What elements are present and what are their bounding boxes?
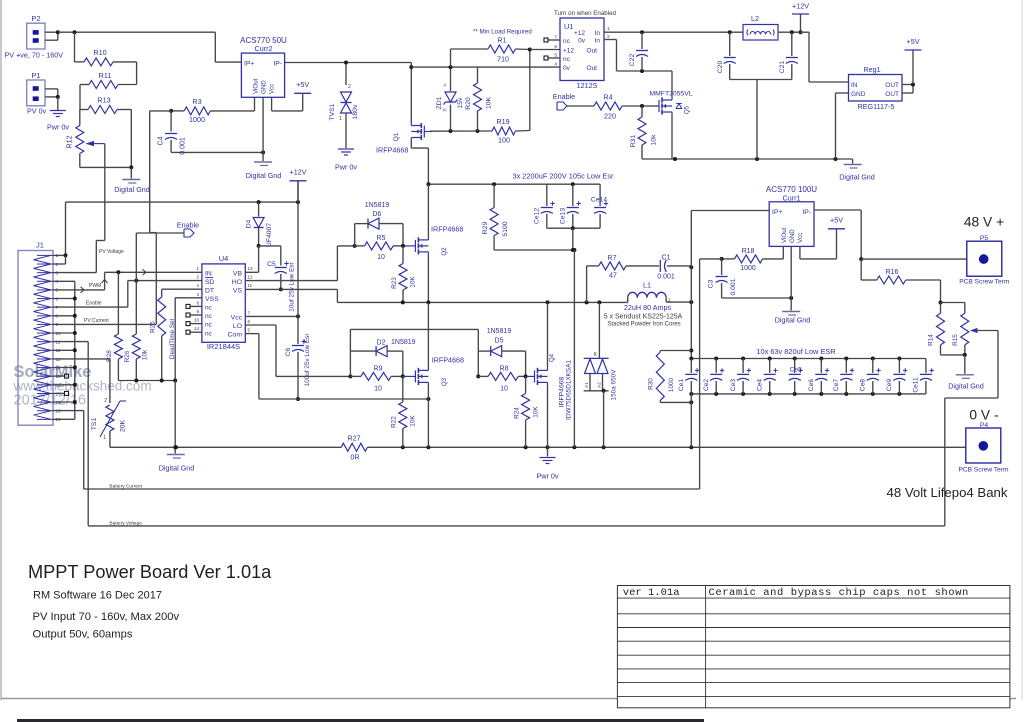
wire U1 pin6 (530, 49, 560, 51)
svg-text:Ce14: Ce14 (591, 197, 607, 204)
capacitor Ce7 (833, 359, 854, 394)
nc pin5 U1 (544, 56, 560, 60)
ground Pwr 0v TVS1 (335, 149, 357, 172)
svg-text:20K: 20K (120, 419, 127, 432)
svg-text:IN: IN (851, 82, 858, 89)
svg-text:VSS: VSS (205, 296, 219, 303)
svg-text:Battery Voltage: Battery Voltage (109, 521, 142, 527)
wire P1 pins (45, 89, 60, 99)
wire P2 junction to R10 (74, 32, 76, 62)
svg-text:Ce9: Ce9 (886, 379, 893, 391)
svg-text:10K: 10K (410, 276, 417, 288)
svg-text:GND: GND (851, 91, 866, 98)
svg-text:10K: 10K (410, 415, 417, 427)
svg-text:IP-: IP- (802, 209, 811, 216)
svg-text:Enable: Enable (86, 301, 102, 307)
resistor R18 (720, 248, 763, 272)
transistor Q1 (376, 123, 432, 155)
svg-text:C6: C6 (285, 347, 292, 356)
wire 0V rail right (401, 445, 966, 449)
capacitor Ce3 (730, 359, 751, 394)
svg-text:+5V: +5V (296, 80, 309, 89)
wire U1 pin1 +12 rail (604, 30, 743, 34)
diode D4 (246, 202, 274, 247)
wire SD row (56, 279, 202, 308)
capacitor Ce14 (591, 184, 608, 228)
thermistor TS1 (91, 398, 127, 447)
label PV 0v (27, 107, 47, 116)
svg-text:GND: GND (261, 80, 268, 94)
capacitor Ce5 (789, 359, 803, 394)
svg-text:IDW75D65D1XKSA1: IDW75D65D1XKSA1 (566, 360, 573, 420)
label 0V- (969, 408, 998, 423)
svg-text:R31: R31 (630, 135, 637, 148)
wire Curr1 ViOut (763, 246, 784, 259)
svg-text:nc: nc (205, 330, 213, 337)
svg-text:IRFP4668: IRFP4668 (376, 146, 408, 155)
svg-text:10: 10 (194, 318, 200, 323)
svg-text:0v: 0v (563, 65, 571, 72)
nc pins U4 (186, 304, 202, 334)
svg-text:R27: R27 (347, 434, 360, 443)
svg-text:10: 10 (374, 386, 382, 393)
wire Com row (245, 334, 430, 401)
wire DT row (162, 288, 202, 290)
svg-text:HO: HO (232, 279, 242, 286)
svg-text:2: 2 (104, 398, 107, 404)
power +5V Curr2 (294, 80, 311, 93)
capacitor Ce1 (678, 359, 699, 394)
label Battery Voltage (109, 521, 142, 527)
svg-text:A1: A1 (584, 382, 590, 388)
wire P2 to IP+ (58, 30, 242, 62)
svg-text:Digital Gnd: Digital Gnd (775, 316, 811, 325)
svg-text:R7: R7 (608, 255, 617, 262)
watermark SolarMike (13, 363, 152, 409)
svg-text:L2: L2 (751, 14, 759, 23)
wire R1-R19 junction (528, 48, 532, 131)
subtitle PV Input (33, 611, 180, 623)
capacitor C22 (629, 32, 648, 71)
label PWM (89, 283, 101, 289)
svg-text:10: 10 (500, 386, 508, 393)
svg-text:R30: R30 (648, 378, 655, 390)
svg-text:Digital Gnd: Digital Gnd (839, 173, 875, 182)
resistor R24 (514, 376, 540, 447)
transistor Q2 (403, 225, 463, 256)
capacitor Ce2 (703, 359, 724, 394)
svg-text:220: 220 (604, 112, 616, 121)
svg-text:D5: D5 (495, 338, 504, 345)
svg-text:Ce6: Ce6 (808, 379, 815, 391)
wire VSS row (175, 298, 202, 381)
capacitor C1 (626, 255, 693, 281)
wire J1 pin11 battery voltage (53, 342, 88, 526)
svg-text:IP+: IP+ (244, 61, 254, 68)
svg-text:Output 50v, 60amps: Output 50v, 60amps (33, 629, 133, 641)
wire rail jog (409, 63, 560, 123)
resistor R14 (928, 303, 945, 355)
wire PV+ rail (426, 182, 600, 186)
wire VS row (245, 289, 337, 302)
capacitor Ce9 (886, 359, 907, 394)
capacitor C6 (285, 333, 311, 401)
svg-text:Out: Out (587, 48, 598, 55)
svg-text:Vcc: Vcc (269, 84, 276, 94)
svg-text:10k: 10k (142, 349, 149, 360)
svg-text:1: 1 (103, 435, 106, 441)
svg-text:IRFP4668: IRFP4668 (559, 376, 566, 407)
wire Q2 source (427, 255, 429, 303)
svg-text:+12: +12 (563, 48, 574, 55)
diode D5 (478, 328, 525, 376)
svg-text:48 Volt Lifepo4 Bank: 48 Volt Lifepo4 Bank (887, 485, 1008, 500)
connector P2 (27, 14, 45, 49)
svg-text:PV Voltage: PV Voltage (99, 249, 124, 255)
connector J1 (18, 241, 61, 426)
svg-text:nc: nc (563, 56, 571, 63)
resistor R30 (648, 351, 694, 405)
svg-text:3x 2200uF 200V 105c Low Esr: 3x 2200uF 200V 105c Low Esr (512, 172, 614, 181)
svg-text:nc: nc (563, 38, 571, 45)
wire J1 pin5 (53, 289, 56, 291)
ground Digital Gnd divider (114, 167, 150, 194)
svg-text:+12: +12 (574, 30, 585, 37)
svg-text:R9: R9 (374, 366, 383, 373)
connector P1 (27, 71, 45, 106)
svg-text:Ceramic and bypass chip caps n: Ceramic and bypass chip caps not shown (709, 587, 969, 599)
resistor R20 (465, 67, 493, 131)
wire R10-R11 (136, 62, 138, 85)
svg-text:R26: R26 (124, 350, 131, 362)
label bulk caps (512, 172, 614, 181)
resistor R25 (150, 289, 177, 380)
wire HO link (337, 244, 356, 248)
title MPPT (28, 562, 272, 582)
svg-text:L1: L1 (643, 281, 651, 290)
svg-text:TS1: TS1 (91, 418, 98, 431)
wire battery current link (700, 259, 722, 489)
svg-text:+5V: +5V (830, 216, 843, 225)
wire J1 pin7 (53, 306, 56, 308)
wire Curr1 IP- to P5 (814, 210, 967, 261)
wire Q1 to Q2 drain (427, 184, 429, 237)
svg-text:IP+: IP+ (772, 209, 782, 216)
bottom screen edge bar (17, 719, 704, 722)
power +5V Reg1 (905, 37, 922, 50)
svg-text:U1: U1 (564, 22, 574, 31)
wire L2 right to Reg1 (778, 30, 849, 82)
svg-text:48 V +: 48 V + (964, 215, 1004, 230)
svg-text:0.001: 0.001 (657, 274, 675, 281)
svg-text:nc: nc (205, 305, 213, 312)
zener ZD1 (436, 65, 464, 131)
svg-text:R11: R11 (99, 71, 112, 80)
svg-text:PCB Screw Term: PCB Screw Term (958, 467, 1009, 474)
wire D4 to VB (245, 244, 260, 272)
ground Digital Gnd Curr2 (246, 162, 282, 180)
subtitle Output (33, 629, 133, 641)
potentiometer R15 (941, 303, 978, 357)
wire J1 pin1 pin2 +12 (53, 253, 68, 264)
svg-text:C22: C22 (629, 54, 636, 67)
capacitor C20 (717, 32, 736, 79)
resistor R31 (630, 106, 658, 159)
page left border (0, 0, 2, 700)
svg-text:Enable: Enable (553, 92, 575, 101)
ground Pwr 0v P1 (47, 97, 69, 132)
svg-text:Ce3: Ce3 (730, 379, 737, 391)
svg-text:IN: IN (205, 270, 212, 277)
resistor R9 (350, 366, 404, 393)
svg-text:Ce5: Ce5 (790, 367, 802, 374)
svg-text:IP-: IP- (273, 61, 282, 68)
svg-text:IR21844S: IR21844S (207, 342, 240, 351)
wire pulldown rail (118, 379, 177, 383)
wire R11-R13 (79, 85, 81, 110)
wire Curr1 Vcc (800, 229, 837, 259)
label PV +ve (5, 51, 64, 60)
svg-text:R14: R14 (928, 334, 935, 346)
ic Reg1 REG1117-5 (849, 65, 903, 111)
svg-text:1212S: 1212S (577, 81, 598, 90)
svg-text:1N5819: 1N5819 (391, 339, 416, 346)
wire Curr2 GND (262, 97, 264, 161)
svg-text:MMFT3055VL: MMFT3055VL (649, 91, 692, 98)
wire C4 to gnd (171, 150, 265, 154)
nc pin7 U1 (544, 38, 560, 42)
svg-text:14: 14 (194, 326, 200, 331)
wire bank to 0V (690, 394, 692, 447)
svg-text:22uH 80 Amps: 22uH 80 Amps (624, 303, 672, 312)
svg-text:PCB Screw Term: PCB Screw Term (959, 279, 1010, 286)
svg-text:nc: nc (205, 322, 213, 329)
svg-text:Q3: Q3 (441, 377, 448, 386)
ic Curr2 ACS770 50U (240, 36, 287, 97)
svg-text:Turn on when Enabled: Turn on when Enabled (554, 10, 617, 17)
page right border (1021, 0, 1023, 700)
svg-text:R5: R5 (377, 235, 386, 242)
svg-text:PV 0v: PV 0v (27, 107, 47, 116)
transistor Q5 (649, 71, 692, 159)
ic U4 IR21844S (194, 254, 253, 351)
wire +12 vertical (297, 181, 299, 344)
svg-text:Pwr 0v: Pwr 0v (335, 163, 357, 172)
svg-text:+12V: +12V (792, 2, 809, 11)
svg-text:R22: R22 (391, 416, 398, 428)
svg-text:ViOut: ViOut (253, 78, 260, 94)
svg-text:P2: P2 (31, 14, 40, 23)
svg-text:Battery Current: Battery Current (109, 484, 142, 490)
svg-text:R24: R24 (514, 407, 521, 419)
svg-text:UF4007: UF4007 (266, 223, 273, 247)
svg-text:PV +ve, 70 - 160V: PV +ve, 70 - 160V (5, 51, 64, 60)
nc J1 pin17 (53, 391, 69, 395)
wire R12 bottom rail (80, 165, 134, 169)
power +12V L2 (792, 2, 809, 35)
resistor R27 (341, 434, 403, 462)
svg-text:Ce2: Ce2 (703, 379, 710, 391)
resistor R5 (355, 235, 405, 261)
power +5V Curr1 (828, 216, 845, 229)
svg-text:0R: 0R (350, 453, 359, 462)
svg-text:1N5819: 1N5819 (365, 202, 390, 209)
svg-text:TVS1: TVS1 (329, 103, 336, 120)
svg-text:** Min Load Required: ** Min Load Required (473, 29, 532, 36)
resistor R13 (80, 96, 131, 114)
svg-text:R1: R1 (497, 36, 506, 45)
svg-text:1000: 1000 (740, 265, 756, 272)
svg-text:ZD1: ZD1 (436, 96, 443, 109)
table revision (617, 586, 1010, 708)
wire J1 pin19 battery current (53, 411, 700, 489)
svg-text:SD: SD (205, 279, 215, 286)
svg-text:100uf 25v Low Esr: 100uf 25v Low Esr (304, 333, 311, 387)
svg-text:U4: U4 (219, 254, 229, 263)
wire battery+ node (689, 211, 769, 359)
svg-text:11: 11 (248, 283, 253, 288)
wire cap bank rails (689, 357, 926, 396)
svg-text:1000: 1000 (668, 377, 675, 392)
svg-text:Q2: Q2 (441, 247, 448, 256)
svg-text:R13: R13 (97, 96, 110, 105)
capacitor Ce13 (560, 184, 581, 228)
resistor R11 (80, 71, 137, 89)
svg-text:Vcc: Vcc (797, 233, 804, 243)
svg-text:Ce1: Ce1 (678, 379, 685, 391)
ground Pwr 0v rail (537, 447, 559, 480)
svg-text:10K: 10K (533, 406, 540, 418)
svg-text:In: In (595, 30, 601, 37)
capacitor Ce6 (808, 359, 829, 394)
svg-text:MPPT Power Board Ver 1.01a: MPPT Power Board Ver 1.01a (28, 562, 272, 582)
resistor R22 (391, 376, 417, 447)
capacitor C21 (779, 32, 798, 79)
svg-text:1000: 1000 (189, 115, 205, 124)
svg-text:Ce13: Ce13 (560, 208, 567, 224)
svg-text:R18: R18 (742, 248, 755, 255)
svg-text:10x 63v 820uf Low ESR: 10x 63v 820uf Low ESR (756, 347, 835, 356)
wire C20 C21 return (730, 80, 792, 160)
wire PV Current sense (56, 111, 171, 325)
wire Vcc row (245, 314, 300, 318)
svg-text:P1: P1 (31, 71, 40, 80)
resistor R8 (478, 366, 527, 393)
svg-text:Digital Gnd: Digital Gnd (246, 171, 282, 180)
svg-text:REG1117-5: REG1117-5 (858, 102, 895, 111)
svg-text:PWM: PWM (89, 283, 101, 289)
svg-text:1: 1 (607, 26, 610, 32)
resistor R3 (169, 97, 210, 124)
svg-text:GND: GND (789, 229, 796, 243)
table text ceramic (709, 587, 969, 599)
svg-text:R19: R19 (496, 117, 509, 126)
svg-text:0 V -: 0 V - (969, 408, 998, 423)
wire PV Voltage sense (56, 144, 105, 273)
wire R15 wiper (945, 331, 998, 526)
resistor R16 (861, 259, 942, 304)
wire IN row (105, 269, 202, 275)
svg-text:OUT: OUT (885, 91, 899, 98)
nc J1 pin15 (53, 374, 69, 378)
svg-text:D4: D4 (246, 219, 253, 228)
svg-text:Q4: Q4 (549, 353, 556, 362)
resistor R23 (391, 246, 417, 303)
potentiometer R12 (65, 110, 105, 168)
diode IDW75D65D1XKSA1 (566, 302, 618, 447)
svg-text:R16: R16 (886, 269, 899, 276)
svg-text:C1: C1 (662, 255, 671, 262)
svg-text:R29: R29 (482, 222, 489, 235)
svg-text:C21: C21 (779, 61, 786, 74)
svg-text:+5V: +5V (907, 37, 920, 46)
label 48V+ (964, 215, 1004, 230)
wire PWM from J1 pin5 (56, 272, 108, 293)
svg-text:1N5819: 1N5819 (487, 328, 512, 335)
terminal P4 (958, 422, 1009, 474)
svg-text:710: 710 (497, 55, 509, 64)
svg-text:+12V: +12V (290, 168, 307, 177)
svg-text:0.001: 0.001 (730, 278, 737, 295)
svg-text:R15: R15 (952, 334, 959, 346)
svg-text:Ce11: Ce11 (913, 377, 920, 393)
svg-text:IRFP4668: IRFP4668 (432, 356, 464, 365)
svg-text:In: In (595, 37, 601, 44)
wire main 0V rail (110, 445, 341, 449)
inductor L2 (743, 14, 778, 40)
wire LO row (245, 325, 350, 376)
label PV Voltage (99, 249, 124, 255)
wire LO gate node (348, 329, 480, 378)
svg-text:LO: LO (233, 323, 242, 330)
wire gnd row U1 (642, 157, 853, 161)
capacitor Ce11 (913, 359, 934, 394)
wire Curr2 ViOut (210, 97, 254, 111)
inductor L1 (604, 281, 694, 328)
svg-text:180v: 180v (352, 104, 359, 119)
svg-text:15v: 15v (457, 97, 464, 109)
resistor R10 (75, 48, 137, 66)
svg-text:R4: R4 (603, 93, 612, 102)
svg-text:Out: Out (587, 65, 598, 72)
svg-text:Digital Gnd: Digital Gnd (948, 382, 984, 391)
svg-text:Q5: Q5 (684, 105, 691, 114)
ground Digital Gnd R15 (948, 355, 984, 391)
svg-text:Q1: Q1 (393, 132, 400, 141)
label Battery Current (109, 484, 142, 490)
table text ver (623, 587, 680, 599)
svg-text:10uf 25v Low Esr: 10uf 25v Low Esr (289, 261, 296, 311)
svg-text:ViOut: ViOut (781, 227, 788, 243)
wire U1 pin2 (604, 40, 672, 74)
svg-text:Pwr 0v: Pwr 0v (537, 472, 559, 481)
svg-text:C5: C5 (267, 261, 276, 268)
svg-text:Ce12: Ce12 (534, 208, 541, 224)
transistor Q4 (526, 302, 566, 407)
terminal P5 (959, 235, 1010, 286)
svg-text:Ce4: Ce4 (756, 379, 763, 391)
svg-text:P4: P4 (980, 422, 989, 429)
svg-text:R20: R20 (465, 97, 472, 110)
ic U1 1212S (554, 18, 610, 90)
capacitor C5 (259, 246, 296, 312)
label output caps (756, 347, 835, 356)
svg-text:5 x Sendust KS225-125A: 5 x Sendust KS225-125A (604, 314, 683, 321)
svg-text:Enable: Enable (177, 221, 199, 230)
svg-text:D2: D2 (377, 340, 386, 347)
svg-text:13: 13 (248, 266, 254, 271)
wire J1 even gnd chain (53, 281, 77, 419)
